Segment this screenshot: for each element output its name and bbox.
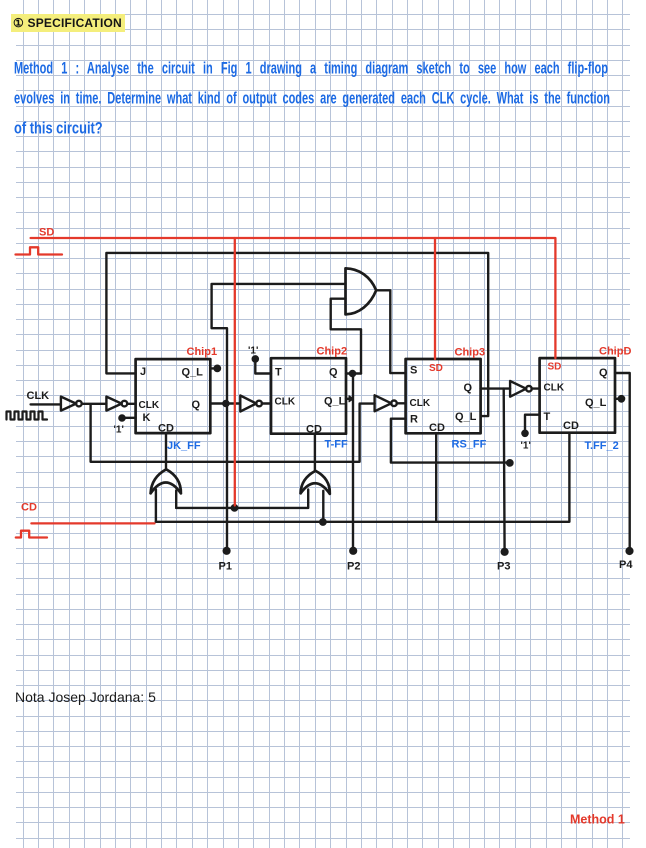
svg-text:T-FF: T-FF — [325, 439, 348, 451]
inverter U4 bubble — [391, 401, 397, 407]
node junction dot where red SD drop meets G2-G3 wire — [232, 505, 237, 510]
node junction dot G3 right input on CD rail — [320, 519, 325, 524]
inverter U5 bubble — [526, 386, 532, 392]
svg-text:Chip3: Chip3 — [455, 347, 486, 359]
wire CD rail from OR1 corner to ChipD CD pin — [156, 433, 570, 522]
svg-text:CLK: CLK — [275, 397, 296, 408]
svg-text:P4: P4 — [619, 559, 633, 571]
node junction Chip1 Q / P1 — [223, 401, 228, 406]
paragraph line 3 — [14, 120, 646, 138]
svg-text:Chip1: Chip1 — [187, 346, 218, 358]
svg-text:CLK: CLK — [27, 390, 50, 402]
svg-text:P2: P2 — [347, 561, 360, 573]
wire ChipD Q_L stub — [615, 398, 620, 400]
inverter U4 (before Chip3 CLK) — [375, 395, 392, 411]
svg-text:J: J — [140, 366, 146, 378]
inverter U2 bubble — [122, 401, 128, 407]
inverter U3 bubble — [256, 401, 262, 407]
CD pulse waveform (red) — [16, 531, 47, 538]
node dot at Chip1 Q_L stub — [215, 366, 220, 371]
node dot at ChipD Q_L stub — [619, 396, 624, 401]
svg-text:Q_L: Q_L — [455, 411, 477, 423]
node '1' dot at Chip1 K — [119, 415, 124, 420]
svg-text:ChipD: ChipD — [599, 346, 631, 358]
svg-text:CLK: CLK — [139, 400, 160, 411]
wire between G2 right input and G3 left input — [176, 490, 308, 508]
arrow head at Chip2 Q_L stub — [349, 396, 354, 402]
svg-text:Q: Q — [192, 399, 201, 411]
CLK square wave symbol — [7, 412, 48, 420]
wire Chip3 R input drop and run to node near P3 — [391, 419, 509, 463]
wire CD rail left segment (red) — [31, 522, 154, 524]
OR gate G3 (below Chip2) — [301, 471, 330, 494]
inverter U1 (CLK buffer 1) — [61, 397, 76, 411]
svg-text:Method 1: Method 1 — [570, 813, 625, 827]
node '1' dot at Chip2 T — [253, 356, 258, 361]
node P3 terminal dot — [502, 549, 508, 555]
node P1 terminal dot — [224, 548, 230, 554]
paragraph line 1 — [14, 60, 608, 78]
svg-text:SD: SD — [548, 362, 562, 373]
wire Chip1 CD pin to OR gate G2 — [165, 433, 167, 469]
wire G2 right input riser — [175, 491, 177, 508]
wire red SD drop to Chip3 SD — [434, 238, 436, 359]
wire U3 to Chip2 CLK pin — [262, 402, 271, 404]
flip-flop Chip1 body — [136, 359, 211, 433]
svg-text:CLK: CLK — [410, 398, 431, 409]
wire Chip2 Q_L stub with arrow — [346, 398, 350, 400]
svg-text:'1': '1' — [248, 346, 258, 357]
svg-text:'1': '1' — [114, 425, 124, 436]
node P2 terminal dot — [350, 548, 356, 554]
wire Chip1 Q output to inverter U3 — [210, 402, 240, 404]
wire Chip1 Q_L stub — [210, 367, 216, 369]
wire Chip2 CD pin to OR gate G3 — [314, 434, 316, 471]
svg-text:JK_FF: JK_FF — [167, 440, 201, 452]
svg-text:CD: CD — [429, 422, 445, 434]
flip-flop Chip3 body — [406, 359, 481, 433]
wire CLK input — [31, 403, 61, 405]
OR gate G2 (below Chip1) — [151, 469, 181, 493]
inverter U1 bubble — [76, 401, 82, 407]
wire P2 drop — [352, 374, 354, 551]
AND gate G1 — [346, 268, 377, 314]
heading: (1) SPECIFICATION highlighted — [11, 14, 125, 32]
wire Chip1 K stub to '1' — [123, 417, 136, 419]
wire U2 to Chip1 CLK pin — [127, 403, 135, 405]
svg-text:Q_L: Q_L — [585, 397, 607, 409]
svg-text:CD: CD — [21, 502, 37, 514]
svg-text:S: S — [410, 365, 417, 377]
svg-text:SD: SD — [39, 227, 54, 239]
wire SD rail (red) with drop to ChipD SD — [31, 238, 556, 358]
wire U5 to ChipD CLK pin — [532, 387, 540, 389]
node dot end of R wire — [507, 460, 512, 465]
svg-text:CD: CD — [563, 420, 579, 432]
svg-text:CLK: CLK — [544, 383, 565, 394]
inverter U3 (between Chip1 and Chip2) — [240, 396, 256, 412]
wire Chip3 CD pin drop — [435, 433, 437, 521]
wire ChipD T input to '1' — [525, 415, 540, 432]
svg-text:Chip2: Chip2 — [317, 346, 348, 358]
svg-text:CD: CD — [158, 423, 174, 435]
note text — [15, 689, 156, 705]
svg-text:Q: Q — [599, 367, 608, 379]
wire feedback Chip3 Q_L to Chip1 J input — [106, 253, 488, 416]
flip-flop Chip2 body — [271, 358, 346, 434]
svg-text:SD: SD — [429, 363, 443, 374]
svg-text:T: T — [544, 411, 551, 423]
wire '1' to Chip2 T input — [255, 361, 271, 373]
wire Chip2 Q output — [346, 372, 361, 374]
svg-text:Q_L: Q_L — [324, 396, 346, 408]
svg-text:P3: P3 — [497, 561, 510, 573]
wire G3 right input riser to CD rail — [322, 491, 324, 522]
svg-text:T: T — [275, 367, 282, 379]
node P4 terminal dot — [627, 548, 633, 554]
wire G1 output to Chip3 S input — [376, 290, 405, 373]
paragraph line 2 — [14, 90, 610, 108]
SD pulse waveform (red) — [16, 247, 63, 254]
svg-text:CD: CD — [306, 424, 322, 436]
wire G2 left input riser from CD rail — [155, 489, 157, 522]
wire Chip2 Q riser to OR gate G1 bottom input — [331, 299, 361, 374]
svg-text:T.FF_2: T.FF_2 — [585, 440, 619, 452]
svg-text:'1': '1' — [521, 441, 531, 452]
flip-flop ChipD body — [540, 358, 615, 433]
node junction Chip2 Q / P2 — [350, 371, 355, 376]
svg-text:P1: P1 — [219, 561, 232, 573]
wire CLK distribution branch down and right to U4 riser — [91, 404, 375, 462]
svg-text:K: K — [143, 412, 151, 424]
wire P3 drop from Chip3 Q — [503, 389, 506, 552]
svg-text:Q: Q — [329, 367, 338, 379]
svg-text:Q: Q — [464, 382, 473, 394]
inverter U2 (CLK buffer 2) — [106, 397, 121, 411]
node '1' dot at ChipD T — [522, 431, 527, 436]
svg-text:Q_L: Q_L — [182, 367, 204, 379]
wire red SD drop to junction on G2-G3 wire — [234, 238, 236, 506]
inverter U5 (before ChipD CLK) — [510, 381, 526, 397]
wire Chip3 Q output to inverter U5 — [481, 387, 511, 389]
svg-text:RS_FF: RS_FF — [452, 439, 487, 451]
wire ChipD Q output to P4 — [615, 373, 630, 550]
wire U1 to U2 — [82, 403, 107, 405]
wire U4 to Chip3 CLK pin — [397, 402, 406, 404]
wire Chip1 Q feedback zigzag up to OR gate G1 top input and down to P1 — [212, 284, 346, 550]
svg-text:R: R — [410, 414, 418, 426]
